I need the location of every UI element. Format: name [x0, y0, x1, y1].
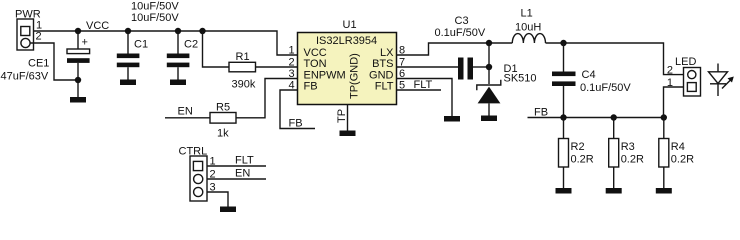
- svg-text:10uF/50V: 10uF/50V: [131, 1, 179, 13]
- svg-text:3: 3: [289, 68, 295, 80]
- node LX/D1 top: [486, 40, 492, 46]
- svg-text:LX: LX: [380, 47, 394, 59]
- node R1 branch: [199, 28, 205, 34]
- svg-text:FLT: FLT: [235, 155, 254, 167]
- svg-text:FB: FB: [304, 81, 318, 93]
- svg-text:10uH: 10uH: [515, 22, 541, 34]
- svg-text:BTS: BTS: [372, 58, 393, 70]
- wire VCC to R1: [203, 31, 230, 67]
- svg-text:+: +: [82, 37, 88, 49]
- ground (TP): [340, 131, 356, 137]
- wire pin4 FB stub: [280, 90, 315, 129]
- svg-text:FB: FB: [534, 107, 548, 119]
- connector LED: [684, 68, 701, 97]
- svg-text:0.2R: 0.2R: [671, 154, 694, 166]
- ground (C2): [170, 80, 186, 86]
- svg-text:R1: R1: [236, 51, 250, 63]
- svg-text:10uF/50V: 10uF/50V: [131, 12, 179, 24]
- ground (R3): [606, 188, 622, 194]
- resistor R5: [210, 113, 236, 124]
- ground (CTRL): [220, 207, 236, 213]
- wire pin6 GND to ground: [397, 79, 453, 117]
- wire R5 to pin3: [236, 79, 298, 118]
- ground (C1): [120, 80, 136, 86]
- svg-text:0.1uF/50V: 0.1uF/50V: [580, 82, 631, 94]
- wire pin8 LX to top rail: [397, 43, 513, 55]
- capacitor C4: [552, 43, 576, 118]
- connector CTRL: [190, 156, 207, 201]
- svg-text:1: 1: [289, 45, 295, 57]
- wire top rail right of L1: [546, 43, 684, 75]
- capacitor C3: [458, 58, 489, 80]
- wire pin7 BTS to C3: [397, 66, 459, 68]
- svg-text:EN: EN: [178, 106, 193, 118]
- svg-text:1k: 1k: [217, 128, 229, 140]
- svg-text:47uF/63V: 47uF/63V: [1, 71, 49, 83]
- wire VCC rail: [34, 31, 298, 55]
- resistor R4: [659, 118, 669, 189]
- inductor L1: [512, 34, 545, 43]
- wire CTRL pin2 EN stub: [207, 178, 266, 180]
- wire LED pin1 to FB rail: [664, 87, 684, 118]
- svg-text:TON: TON: [304, 58, 327, 70]
- capacitor CE1: [67, 31, 90, 80]
- svg-text:GND: GND: [369, 69, 394, 81]
- wire D1 vertical: [488, 43, 490, 84]
- connector PWR: [17, 19, 34, 50]
- svg-text:SK510: SK510: [504, 73, 537, 85]
- svg-text:C2: C2: [184, 39, 198, 51]
- wire CTRL pin1 FLT stub: [207, 165, 266, 167]
- wire pin5 FLT stub: [397, 89, 442, 91]
- svg-text:2: 2: [36, 31, 42, 43]
- svg-text:FLT: FLT: [375, 81, 394, 93]
- ground (CE1): [70, 97, 86, 103]
- LED symbol: [709, 64, 734, 97]
- svg-text:TP: TP: [336, 109, 348, 123]
- wire EN stub to R5: [165, 117, 210, 119]
- svg-text:FLT: FLT: [414, 79, 433, 91]
- svg-text:FB: FB: [289, 118, 303, 130]
- svg-text:C4: C4: [582, 69, 596, 81]
- wire FB rail: [528, 117, 664, 119]
- svg-text:IS32LR3954: IS32LR3954: [316, 35, 377, 47]
- svg-text:TP(GND): TP(GND): [349, 53, 361, 99]
- node FB/R3: [611, 114, 617, 120]
- svg-text:4: 4: [289, 80, 295, 92]
- wire CTRL pin3 to ground: [207, 192, 228, 207]
- capacitor C2: [167, 31, 190, 80]
- node C3/D1: [486, 64, 492, 70]
- svg-text:ENPWM: ENPWM: [304, 69, 346, 81]
- node FB/R2: [560, 114, 566, 120]
- svg-text:C3: C3: [455, 15, 469, 27]
- svg-text:2: 2: [289, 57, 295, 69]
- resistor R3: [609, 118, 619, 189]
- svg-text:R2: R2: [571, 141, 585, 153]
- ground (R2): [556, 188, 572, 194]
- wire TP pin: [347, 105, 349, 131]
- diode D1 (schottky): [477, 80, 501, 116]
- ground (pin6): [444, 116, 460, 122]
- svg-text:0.1uF/50V: 0.1uF/50V: [435, 27, 486, 39]
- svg-text:LED: LED: [675, 56, 696, 68]
- node CE1 top: [75, 28, 81, 34]
- svg-text:0.2R: 0.2R: [571, 154, 594, 166]
- svg-text:C1: C1: [134, 39, 148, 51]
- op-amp U1 IC body: [298, 33, 397, 105]
- resistor R1: [229, 62, 256, 72]
- svg-text:CE1: CE1: [28, 58, 49, 70]
- node C1 top: [125, 28, 131, 34]
- wire PWR pin2 to CE1 bottom: [30, 43, 78, 80]
- capacitor C1: [117, 31, 140, 80]
- svg-text:390k: 390k: [232, 79, 256, 91]
- node CE1 bottom: [75, 77, 81, 83]
- svg-text:R3: R3: [621, 141, 635, 153]
- svg-text:VCC: VCC: [86, 20, 109, 32]
- svg-text:R5: R5: [216, 102, 230, 114]
- wire R1 to pin2: [256, 66, 298, 68]
- node C2 top: [175, 28, 181, 34]
- svg-text:1: 1: [667, 77, 673, 89]
- svg-text:0.2R: 0.2R: [621, 154, 644, 166]
- svg-text:VCC: VCC: [304, 47, 327, 59]
- svg-text:2: 2: [667, 64, 673, 76]
- svg-text:R4: R4: [671, 141, 685, 153]
- node FB/R4: [661, 114, 667, 120]
- wire CE1 to ground: [77, 80, 79, 97]
- svg-text:L1: L1: [521, 8, 533, 20]
- node C4 top: [560, 40, 566, 46]
- svg-text:EN: EN: [235, 168, 250, 180]
- ground (D1): [481, 116, 497, 122]
- resistor R2: [559, 118, 569, 189]
- svg-text:CTRL: CTRL: [179, 146, 208, 158]
- svg-text:U1: U1: [343, 19, 357, 31]
- ground (R4): [656, 188, 672, 194]
